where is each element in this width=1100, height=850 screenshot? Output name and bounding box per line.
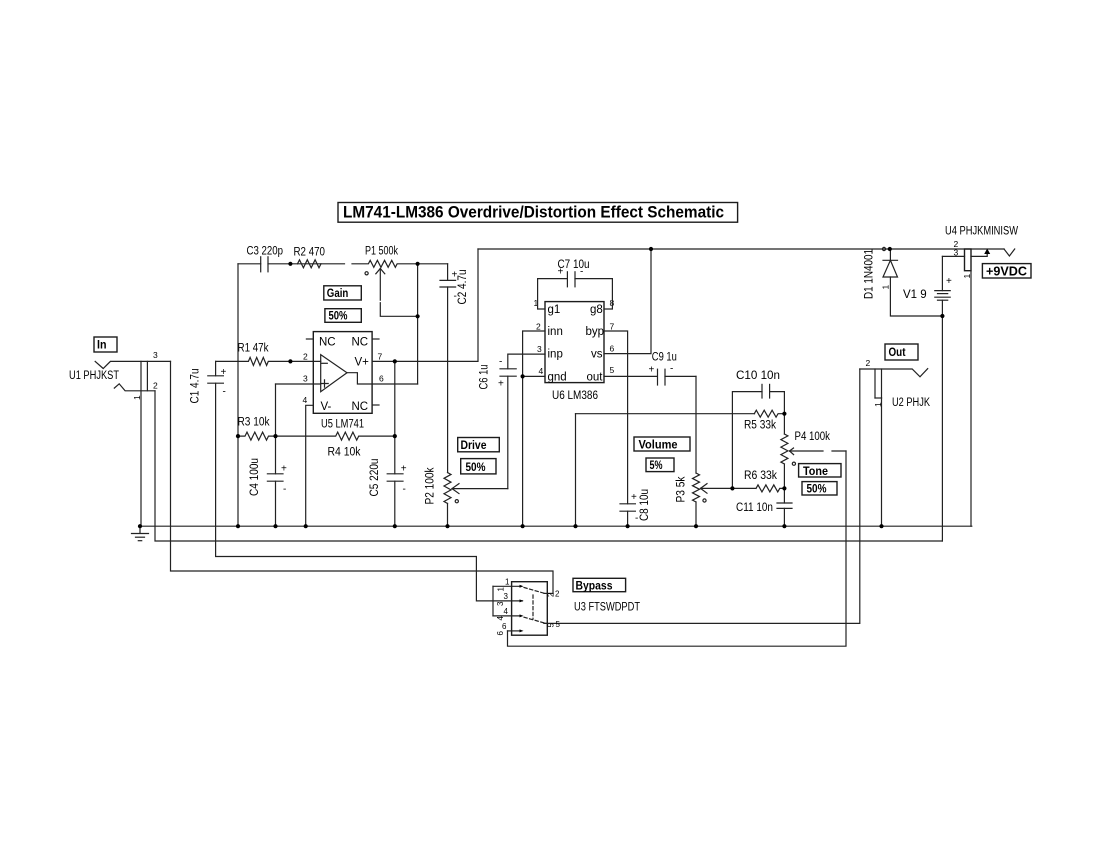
svg-text:7: 7 <box>610 322 615 332</box>
svg-text:5: 5 <box>556 620 561 629</box>
capacitor C8 10u <box>620 489 651 526</box>
svg-text:U1 PHJKST: U1 PHJKST <box>69 370 119 382</box>
svg-text:50%: 50% <box>466 460 486 474</box>
svg-text:4: 4 <box>303 395 308 405</box>
svg-text:2: 2 <box>303 351 308 361</box>
connector U4 PHJKMINISW power jack <box>942 226 1018 279</box>
svg-text:U4 PHJKMINISW: U4 PHJKMINISW <box>945 226 1018 238</box>
svg-text:4: 4 <box>504 607 509 616</box>
svg-text:-: - <box>670 364 673 375</box>
svg-text:C9 1u: C9 1u <box>652 351 677 363</box>
capacitor C6 1u <box>478 354 545 489</box>
svg-text:P4 100k: P4 100k <box>795 431 831 443</box>
svg-text:V1 9: V1 9 <box>903 289 927 301</box>
capacitor C11 10n <box>736 488 792 526</box>
svg-text:vs: vs <box>591 349 603 361</box>
svg-text:7: 7 <box>378 351 383 361</box>
svg-text:C10 10n: C10 10n <box>736 370 780 382</box>
svg-text:6: 6 <box>496 631 505 636</box>
node Tone 50% label <box>802 482 837 496</box>
svg-text:C1 4.7u: C1 4.7u <box>190 369 202 404</box>
wire +9V power rail <box>478 248 1004 250</box>
svg-text:2: 2 <box>536 322 541 332</box>
capacitor C3 220p <box>238 246 345 272</box>
wire P1 right terminal vertical to op-amp pin6 <box>417 264 419 384</box>
wire U6 pin2 inn to ground <box>523 331 545 526</box>
svg-text:C11 10n: C11 10n <box>736 502 773 514</box>
svg-text:1: 1 <box>881 285 891 290</box>
svg-text:C4 100u: C4 100u <box>249 458 261 496</box>
wire U1 pin2 to battery minus rail <box>155 391 942 541</box>
potentiometer P3 5k <box>676 473 757 526</box>
svg-text:2: 2 <box>153 381 158 391</box>
svg-text:C2 4.7u: C2 4.7u <box>457 270 469 305</box>
svg-text:P2 100k: P2 100k <box>425 467 437 504</box>
ground <box>132 526 149 541</box>
svg-text:In: In <box>97 338 107 352</box>
potentiometer P1 500k <box>352 246 448 317</box>
wire U6 pin6 vs to +9V rail <box>604 249 651 354</box>
svg-text:+: + <box>498 378 504 389</box>
wire U6 pin7 byp down to C8 <box>604 331 628 504</box>
svg-text:3: 3 <box>153 350 158 360</box>
wire U2 pin1 sleeve to ground <box>881 398 883 526</box>
wire U4 sleeve to ground rail <box>970 271 972 527</box>
svg-text:3: 3 <box>537 344 542 354</box>
wire bypass switch pin5 to U2 tip <box>544 369 860 623</box>
svg-text:R5 33k: R5 33k <box>744 420 776 432</box>
svg-text:+: + <box>401 464 407 475</box>
svg-text:3: 3 <box>504 592 509 601</box>
svg-text:out: out <box>587 371 604 383</box>
svg-text:P3 5k: P3 5k <box>676 476 688 502</box>
svg-text:V+: V+ <box>355 357 370 369</box>
node Drive label <box>458 438 500 453</box>
junction dots <box>138 247 945 528</box>
svg-text:+9VDC: +9VDC <box>986 264 1027 278</box>
svg-text:NC: NC <box>319 337 336 349</box>
svg-text:C3 220p: C3 220p <box>247 246 284 258</box>
wire op-amp pin7 V+ supply <box>372 249 478 361</box>
svg-text:5%: 5% <box>650 458 663 472</box>
svg-text:3: 3 <box>303 374 308 384</box>
svg-text:2: 2 <box>555 590 560 599</box>
svg-text:5: 5 <box>610 365 615 375</box>
resistor R5 33k <box>744 410 784 431</box>
svg-text:Drive: Drive <box>461 438 487 452</box>
wire C3 left / R3 left grounded vertical <box>237 264 239 526</box>
wire C1 bottom to bypass switch pin3 <box>216 383 523 601</box>
node Tone label <box>799 464 841 478</box>
svg-text:byp: byp <box>586 326 605 338</box>
node In label <box>94 337 117 352</box>
svg-text:Gain: Gain <box>327 286 349 300</box>
svg-text:C5 220u: C5 220u <box>369 459 381 497</box>
svg-text:-: - <box>635 513 638 524</box>
capacitor C5 220u <box>369 459 407 527</box>
capacitor C9 1u <box>604 351 696 385</box>
svg-text:6: 6 <box>379 374 384 384</box>
svg-text:-: - <box>283 484 286 495</box>
capacitor C10 10n <box>732 370 784 488</box>
svg-text:Bypass: Bypass <box>576 578 613 592</box>
svg-text:U2 PHJK: U2 PHJK <box>892 397 930 409</box>
svg-text:R6 33k: R6 33k <box>744 470 777 482</box>
svg-text:D1 1N4001: D1 1N4001 <box>864 249 876 299</box>
wire U1 pin3 to bypass switch pin2 <box>171 361 554 593</box>
svg-text:+: + <box>631 492 637 503</box>
wire op-amp pin3 from R3/C4 node <box>276 383 321 385</box>
connector U1 PHJKST input jack <box>69 350 171 400</box>
svg-text:5: 5 <box>547 623 556 628</box>
node Volume label <box>634 437 690 452</box>
svg-text:6: 6 <box>610 344 615 354</box>
op-amp U5 LM741 <box>303 332 385 431</box>
wire P4 wiper to bypass switch pin6 <box>508 451 847 646</box>
node Gain 50% label <box>325 309 361 323</box>
svg-text:inp: inp <box>548 349 563 361</box>
svg-text:+: + <box>221 367 227 378</box>
svg-text:50%: 50% <box>807 482 827 496</box>
node Bypass label <box>573 578 626 592</box>
resistor R1 47k <box>216 343 321 366</box>
wire ground rail <box>140 525 972 527</box>
IC U6 LM386 <box>534 298 615 402</box>
potentiometer P2 100k <box>425 467 508 526</box>
svg-text:R3 10k: R3 10k <box>238 417 270 429</box>
node Drive 50% label <box>461 459 496 474</box>
svg-text:P1 500k: P1 500k <box>365 246 398 258</box>
svg-text:C7 10u: C7 10u <box>558 259 590 271</box>
title box <box>338 203 738 223</box>
potentiometer P4 100k <box>781 414 846 489</box>
svg-text:C6 1u: C6 1u <box>478 365 490 390</box>
wire C9 out down to P3 <box>695 376 697 473</box>
svg-text:U5 LM741: U5 LM741 <box>321 419 364 431</box>
wire op-amp V- pin4 to ground <box>306 405 314 526</box>
svg-text:g8: g8 <box>590 304 603 316</box>
battery V1 9 <box>903 256 952 541</box>
svg-text:4: 4 <box>496 616 505 621</box>
svg-text:-: - <box>499 357 502 368</box>
capacitor C4 100u <box>249 436 287 526</box>
capacitor C2 4.7u <box>440 264 469 473</box>
svg-text:2: 2 <box>547 592 556 597</box>
svg-text:+: + <box>649 365 655 376</box>
svg-text:-: - <box>403 484 406 495</box>
svg-text:+: + <box>281 464 287 475</box>
svg-text:1: 1 <box>505 578 510 587</box>
svg-text:-: - <box>223 387 226 398</box>
resistor R3 10k <box>238 417 276 441</box>
svg-text:R2 470: R2 470 <box>294 247 326 259</box>
node Gain label <box>324 286 362 300</box>
node +9VDC label <box>982 264 1031 279</box>
capacitor C1 4.7u <box>190 361 227 403</box>
svg-text:U6 LM386: U6 LM386 <box>552 390 598 402</box>
svg-text:2: 2 <box>866 358 871 368</box>
wire U1 pin1 sleeve to ground <box>140 391 142 526</box>
svg-text:gnd: gnd <box>548 371 567 383</box>
switch U3 FTSWDPDT bypass footswitch <box>493 578 640 636</box>
svg-text:g1: g1 <box>548 304 561 316</box>
wire U6 pin4 gnd <box>523 375 545 377</box>
svg-text:inn: inn <box>548 326 563 338</box>
svg-text:LM741-LM386 Overdrive/Distorti: LM741-LM386 Overdrive/Distortion Effect … <box>343 203 724 222</box>
node Volume 5% label <box>646 458 674 472</box>
svg-text:NC: NC <box>352 337 369 349</box>
svg-text:Out: Out <box>889 345 906 359</box>
resistor R4 10k <box>276 432 395 458</box>
node Out label <box>885 344 918 360</box>
svg-text:+: + <box>946 276 952 287</box>
svg-text:4: 4 <box>539 366 544 376</box>
capacitor C7 10u <box>538 259 613 309</box>
svg-text:50%: 50% <box>329 309 348 323</box>
wire op-amp pin6 to P1 bottom <box>372 383 418 385</box>
resistor R2 470 (on wire above, zigzag) <box>294 247 326 268</box>
connector U2 PHJK output jack <box>860 358 930 409</box>
svg-text:3: 3 <box>954 248 959 258</box>
svg-text:Volume: Volume <box>639 438 678 452</box>
wire op-amp out junction vertical to R4/C5 <box>394 361 396 473</box>
svg-text:R4 10k: R4 10k <box>328 447 361 459</box>
svg-text:U3 FTSWDPDT: U3 FTSWDPDT <box>574 602 640 614</box>
resistor R6 33k <box>744 470 784 492</box>
svg-text:Tone: Tone <box>803 464 828 478</box>
svg-text:3: 3 <box>496 601 505 606</box>
svg-text:NC: NC <box>352 401 369 413</box>
svg-text:C8 10u: C8 10u <box>639 489 651 521</box>
wire tone network feed <box>576 413 755 415</box>
wire LM386 ground leg of tone network <box>575 414 577 527</box>
svg-text:R1 47k: R1 47k <box>238 343 269 355</box>
svg-text:V-: V- <box>321 401 332 413</box>
svg-text:6: 6 <box>502 622 507 631</box>
svg-text:1: 1 <box>497 587 506 592</box>
diode D1 1N4001 <box>864 247 943 316</box>
